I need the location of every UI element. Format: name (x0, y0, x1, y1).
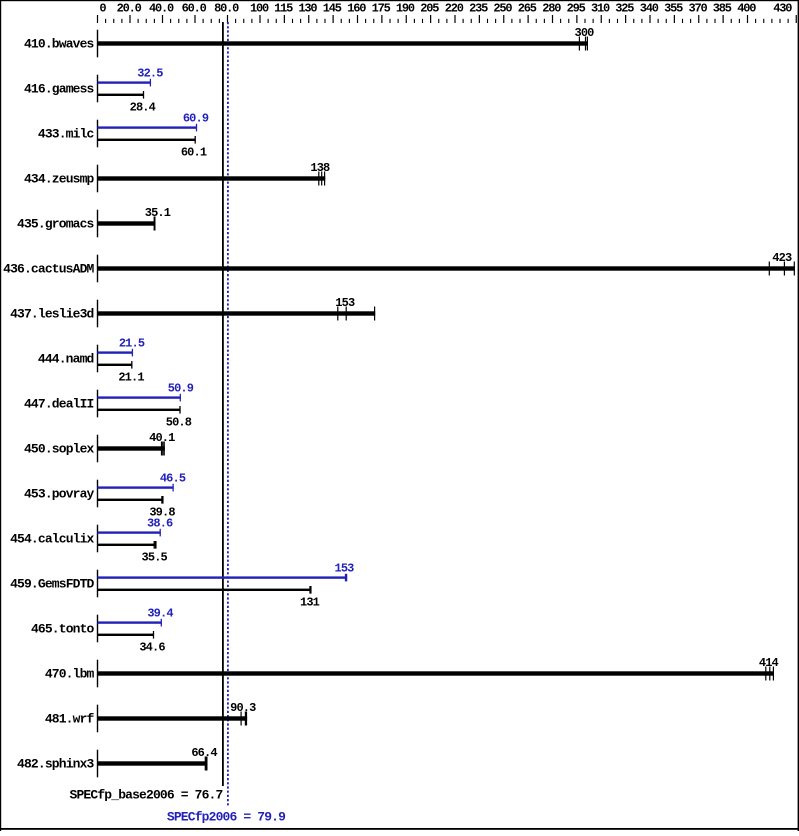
base result text (70, 788, 223, 803)
axis minor ticks (105, 19, 789, 23)
svg-text:60.1: 60.1 (181, 146, 207, 160)
row 433.milc (38, 112, 209, 160)
svg-text:235: 235 (469, 2, 488, 16)
svg-text:66.4: 66.4 (191, 746, 217, 760)
axis scale labels (99, 2, 792, 16)
svg-text:437.leslie3d: 437.leslie3d (10, 307, 93, 322)
row 444.namd (38, 337, 145, 385)
row 453.povray (24, 472, 186, 520)
svg-text:450.soplex: 450.soplex (24, 442, 95, 457)
svg-text:444.namd: 444.namd (38, 352, 94, 367)
svg-text:465.tonto: 465.tonto (31, 622, 95, 637)
frame border left (0, 0, 1, 831)
svg-text:205: 205 (420, 2, 439, 16)
svg-text:482.sphinx3: 482.sphinx3 (17, 757, 95, 772)
svg-text:436.cactusADM: 436.cactusADM (3, 262, 94, 277)
svg-text:35.1: 35.1 (145, 206, 171, 220)
frame border bottom (0, 828, 799, 830)
base mean line (76.7) black solid (222, 22, 224, 786)
frame border top (0, 0, 799, 1)
svg-text:153: 153 (335, 296, 355, 310)
svg-text:21.5: 21.5 (119, 337, 145, 351)
svg-text:SPECfp2006 = 79.9: SPECfp2006 = 79.9 (167, 809, 286, 824)
row 459.GemsFDTD (10, 562, 354, 610)
svg-text:40.1: 40.1 (149, 431, 175, 445)
svg-text:153: 153 (335, 562, 355, 576)
svg-text:310: 310 (591, 2, 610, 16)
peak mean line (79.9) blue dotted (227, 22, 229, 806)
svg-text:370: 370 (688, 2, 707, 16)
axis major ticks (97, 15, 797, 23)
svg-text:SPECfp_base2006 = 76.7: SPECfp_base2006 = 76.7 (70, 788, 223, 803)
row 436.cactusADM (3, 251, 795, 282)
row 410.bwaves (24, 26, 594, 57)
row 465.tonto (31, 607, 173, 655)
svg-text:190: 190 (396, 2, 415, 16)
svg-text:385: 385 (713, 2, 732, 16)
svg-text:459.GemsFDTD: 459.GemsFDTD (10, 577, 94, 592)
svg-text:138: 138 (310, 161, 330, 175)
svg-text:145: 145 (323, 2, 342, 16)
svg-text:35.5: 35.5 (142, 551, 168, 565)
svg-text:32.5: 32.5 (137, 67, 163, 81)
svg-text:454.calculix: 454.calculix (10, 532, 94, 547)
row 481.wrf (45, 701, 256, 732)
svg-text:447.dealII: 447.dealII (24, 397, 94, 412)
row 470.lbm (45, 656, 779, 687)
row 434.zeusmp (24, 161, 330, 192)
svg-text:433.milc: 433.milc (38, 127, 95, 142)
svg-text:46.5: 46.5 (160, 472, 186, 486)
svg-text:435.gromacs: 435.gromacs (17, 217, 95, 232)
svg-text:100: 100 (250, 2, 269, 16)
svg-text:90.3: 90.3 (230, 701, 256, 715)
frame border right (798, 0, 799, 831)
row 435.gromacs (17, 206, 171, 237)
svg-text:50.9: 50.9 (168, 382, 194, 396)
row 454.calculix (10, 517, 173, 565)
svg-text:131: 131 (300, 596, 320, 610)
svg-text:280: 280 (542, 2, 561, 16)
svg-text:160: 160 (347, 2, 366, 16)
svg-text:220: 220 (445, 2, 464, 16)
svg-text:481.wrf: 481.wrf (45, 712, 95, 727)
svg-text:410.bwaves: 410.bwaves (24, 37, 95, 52)
svg-text:21.1: 21.1 (118, 371, 144, 385)
row 416.gamess (24, 67, 163, 115)
svg-text:265: 265 (518, 2, 537, 16)
svg-text:115: 115 (274, 2, 293, 16)
svg-text:130: 130 (298, 2, 317, 16)
svg-text:175: 175 (372, 2, 391, 16)
svg-text:38.6: 38.6 (147, 517, 173, 531)
svg-text:300: 300 (575, 26, 595, 40)
svg-text:355: 355 (664, 2, 683, 16)
svg-text:34.6: 34.6 (139, 641, 165, 655)
svg-text:453.povray: 453.povray (24, 487, 95, 502)
peak result text (167, 809, 286, 824)
svg-text:295: 295 (567, 2, 586, 16)
svg-text:60.9: 60.9 (183, 112, 209, 126)
svg-text:325: 325 (615, 2, 634, 16)
row 482.sphinx3 (17, 746, 217, 777)
svg-text:0: 0 (99, 2, 106, 16)
svg-text:400: 400 (737, 2, 756, 16)
row 437.leslie3d (10, 296, 375, 327)
svg-text:340: 340 (640, 2, 659, 16)
svg-text:434.zeusmp: 434.zeusmp (24, 172, 95, 187)
svg-text:20.0: 20.0 (117, 2, 142, 16)
svg-text:414: 414 (759, 656, 779, 670)
svg-text:60.0: 60.0 (182, 2, 207, 16)
svg-text:423: 423 (772, 251, 792, 265)
svg-text:40.0: 40.0 (149, 2, 174, 16)
row 447.dealII (24, 382, 194, 430)
row 450.soplex (24, 431, 175, 462)
svg-text:430: 430 (773, 2, 792, 16)
svg-text:416.gamess: 416.gamess (24, 82, 95, 97)
svg-text:50.8: 50.8 (166, 416, 192, 430)
svg-text:470.lbm: 470.lbm (45, 667, 95, 682)
svg-text:28.4: 28.4 (130, 101, 156, 115)
svg-text:80.0: 80.0 (214, 2, 239, 16)
svg-text:39.4: 39.4 (147, 607, 173, 621)
svg-text:250: 250 (493, 2, 512, 16)
